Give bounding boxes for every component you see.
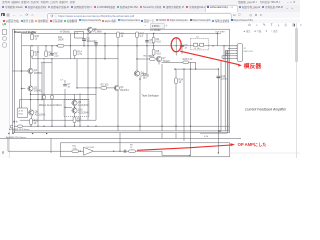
wire under C6 xyxy=(181,47,183,54)
svg-text:1n: 1n xyxy=(67,86,70,89)
svg-text:4.10: 4.10 xyxy=(156,53,161,56)
schematic sheet border outer xyxy=(13,29,230,133)
junction x218.4 output node xyxy=(218,68,219,69)
svg-text:J1 IN: J1 IN xyxy=(18,111,23,113)
svg-text:Current Feedback Amplifier: Current Feedback Amplifier xyxy=(245,107,287,111)
transistor Q3 xyxy=(114,85,129,91)
faint page edge line right xyxy=(228,152,300,154)
wire v x96 xyxy=(95,42,97,120)
junction x118 top rail xyxy=(117,33,118,34)
wire v x224 xyxy=(223,46,225,60)
svg-text:2N5551: 2N5551 xyxy=(34,72,43,75)
wire v x217 xyxy=(216,34,218,46)
junction x65 mirror xyxy=(64,107,65,108)
transistor Q4 xyxy=(134,71,149,77)
svg-text:J2: J2 xyxy=(243,48,246,50)
junction x137 bias rail xyxy=(136,45,137,46)
svg-text:2.2: 2.2 xyxy=(140,35,144,38)
svg-text:U1 5532: U1 5532 xyxy=(86,147,95,149)
junction x96 bottom rail xyxy=(95,126,96,127)
wire v x174a xyxy=(175,38,177,46)
wire v x21 input column xyxy=(21,34,23,109)
junction x32 bias rail xyxy=(31,45,32,46)
junction x153.6 top rail xyxy=(153,33,154,34)
svg-text:模反器: 模反器 xyxy=(244,62,262,70)
junction x88 y88 xyxy=(87,87,88,88)
wire v x176a xyxy=(175,69,177,78)
resistor R17 xyxy=(136,32,145,38)
wire v x155c xyxy=(153,55,155,56)
output connector J2 xyxy=(235,44,254,62)
wire v x147 xyxy=(146,34,148,46)
wire nested corner 2 xyxy=(224,50,226,131)
svg-text:1k: 1k xyxy=(130,147,133,149)
capacitor C3 xyxy=(94,43,98,44)
wire v x140 xyxy=(139,76,141,131)
junction x105 top rail xyxy=(104,33,105,34)
svg-text:Diamond Buffer: Diamond Buffer xyxy=(14,30,37,34)
svg-text:AO4M(M) 2N.0 Series: AO4M(M) 2N.0 Series xyxy=(9,128,29,131)
wire v x88 xyxy=(87,34,89,121)
wire v x74c xyxy=(74,113,76,117)
junction x44 y94 xyxy=(43,94,44,95)
svg-text:+V 36Vdc: +V 36Vdc xyxy=(150,29,161,32)
wire stub below frame x162 xyxy=(161,133,163,139)
junction x38 mid rail xyxy=(37,99,38,100)
junction x140 bottom rail xyxy=(139,126,140,127)
wire v x38 xyxy=(37,46,39,126)
wire opamp in xyxy=(8,150,72,152)
junction opamp out xyxy=(113,151,114,152)
inductor L1 xyxy=(194,43,198,46)
transistor Q9 xyxy=(72,100,89,106)
wire v x190 xyxy=(190,62,192,155)
wire +V drop xyxy=(69,34,71,46)
transistor Q8 xyxy=(29,110,46,116)
transistor Q10 xyxy=(72,108,89,114)
wire mirror base xyxy=(65,106,72,108)
junction x65 bottom rail xyxy=(64,126,65,127)
capacitor C8 xyxy=(82,37,97,43)
svg-text:RCA: RCA xyxy=(18,113,23,116)
red leader line 1 xyxy=(180,51,238,64)
svg-text:OP AMPにした: OP AMPにした xyxy=(238,141,267,148)
svg-text:5.1k: 5.1k xyxy=(204,136,209,138)
wire v x51 below frame xyxy=(50,138,52,153)
wire v x137 xyxy=(136,34,138,71)
wire mid rail left2 xyxy=(31,93,97,95)
wire v x44 xyxy=(43,61,45,120)
wire mid rail left xyxy=(20,99,90,101)
wire -V bottom rail xyxy=(15,125,230,127)
svg-text:10: 10 xyxy=(34,122,37,125)
wire v x184b xyxy=(183,69,185,141)
junction x46 bias rail xyxy=(45,45,46,46)
resistor R21 xyxy=(73,117,82,123)
wire v x218 long xyxy=(217,79,219,154)
wire R15 down xyxy=(31,56,33,59)
wire +V top rail xyxy=(22,33,221,35)
schematic sheet border inner left xyxy=(13,29,15,133)
op-amp U1 xyxy=(84,147,96,155)
capacitor C9 xyxy=(180,44,188,50)
junction x153.6 bias rail xyxy=(153,45,154,46)
junction x74.5 mid rail xyxy=(74,99,75,100)
capacitor C7 xyxy=(63,83,71,89)
wire below frame long xyxy=(0,137,241,139)
wire v x42 xyxy=(41,63,43,100)
junction x175 output node xyxy=(174,68,175,69)
wire v x70b xyxy=(69,46,71,59)
svg-text:100u/16V: 100u/16V xyxy=(86,40,97,43)
svg-text:P2.8MA: P2.8MA xyxy=(93,31,102,34)
junction x140 y79 xyxy=(139,78,140,79)
red arrowhead 2 xyxy=(230,143,235,146)
schematic sheet border inner bottom xyxy=(13,130,230,132)
junction Q9/Q10 bases xyxy=(74,107,75,108)
wire to opamp xyxy=(78,150,83,152)
wire v x77 xyxy=(76,59,78,88)
resistor R7 xyxy=(200,43,204,46)
svg-text:D44H11: D44H11 xyxy=(120,89,129,92)
wire y88 driver xyxy=(77,87,114,89)
junction x88 bias rail xyxy=(87,45,88,46)
input coupling resistor on rail xyxy=(18,125,23,128)
junction x74.5 bottom rail xyxy=(74,126,75,127)
junction x184 output node xyxy=(183,68,184,69)
junction x96 y88 xyxy=(95,87,96,88)
junction x218 y153 xyxy=(218,152,219,153)
current mirror dashed box xyxy=(64,100,89,117)
svg-text:TO220: TO220 xyxy=(162,60,170,63)
junction near frame corner xyxy=(218,130,221,131)
wire v x65a xyxy=(64,80,66,84)
wire Q1 base xyxy=(13,70,28,72)
svg-text:2200u: 2200u xyxy=(221,77,228,80)
wire v x74a xyxy=(74,94,76,100)
junction fb xyxy=(189,155,190,156)
wire stub below frame x176 xyxy=(175,133,177,139)
wire v x74b xyxy=(74,106,76,108)
transistor Q5 xyxy=(87,27,102,33)
input jack circle xyxy=(10,125,13,128)
wire C8 down xyxy=(83,40,85,46)
wire v x74d xyxy=(74,123,76,127)
svg-text:A1C(2N4): A1C(2N4) xyxy=(35,113,46,116)
wire mid stub2 xyxy=(32,58,96,60)
wire v x118b xyxy=(117,91,119,131)
wire v x176b xyxy=(175,84,177,131)
junction x176.2 bias rail xyxy=(176,45,177,46)
wire stub y63 xyxy=(41,62,52,64)
junction x21 Q1 base xyxy=(21,70,22,71)
wire v x80 xyxy=(79,93,81,126)
svg-text:SPK OUT: SPK OUT xyxy=(243,51,253,53)
wire v x30a xyxy=(30,46,32,69)
resistor R8 xyxy=(117,32,125,38)
wire nested corner 3 xyxy=(200,50,227,133)
transistor Q2 xyxy=(28,86,43,92)
resistor R4 xyxy=(152,37,161,43)
junction x32 top rail xyxy=(31,33,32,34)
junction x147 bias rail xyxy=(146,45,147,46)
wire bottom rail2 xyxy=(20,119,96,121)
wire v x162 xyxy=(161,64,163,131)
resistor R19 xyxy=(51,95,54,99)
junction x52 y58 xyxy=(51,58,52,59)
junction x96 bias rail xyxy=(95,45,96,46)
wire R14 down xyxy=(74,56,76,59)
wire fb right1 xyxy=(135,150,162,152)
resistor R14 xyxy=(73,50,82,56)
junction x105 bias rail xyxy=(104,45,105,46)
resistor R16 xyxy=(31,34,40,40)
red arrowhead 1 xyxy=(238,64,242,67)
wire v x218cap xyxy=(217,69,219,76)
svg-text:R10 4.7: R10 4.7 xyxy=(144,56,152,58)
svg-text:1k: 1k xyxy=(121,35,124,38)
svg-text:R23 0.22: R23 0.22 xyxy=(183,58,193,61)
resistor R9 xyxy=(45,51,54,57)
wire v x105 xyxy=(104,34,106,59)
svg-text:C7: C7 xyxy=(60,80,64,82)
resistor R1 xyxy=(58,37,64,47)
resistor R18 xyxy=(43,95,46,99)
junction x217 top xyxy=(217,33,218,34)
wire Q7 down xyxy=(158,62,160,65)
input connector J1 xyxy=(17,108,28,118)
wire R23 right xyxy=(189,61,196,63)
svg-text:R2 100: R2 100 xyxy=(101,84,109,87)
transistor Q7 xyxy=(156,56,170,62)
Vbe multiplier dashed box xyxy=(191,39,209,50)
svg-text:Triple Darlington: Triple Darlington xyxy=(142,95,160,98)
svg-text:10: 10 xyxy=(35,37,38,40)
junction x162 bottom rail xyxy=(161,126,162,127)
junction x176 bottom rail xyxy=(175,126,176,127)
svg-text:10: 10 xyxy=(35,54,38,57)
wire R20 down xyxy=(30,124,32,126)
junction opamp -in xyxy=(80,151,81,152)
junction x52 bottom rail xyxy=(51,126,52,127)
wire v x228 xyxy=(227,50,229,131)
resistor R5 xyxy=(152,49,161,55)
svg-text:1n: 1n xyxy=(184,46,187,49)
junction x190.5 bottom rail xyxy=(190,126,191,127)
wire fb h2 xyxy=(162,155,190,157)
red annotation ellipse xyxy=(171,38,181,52)
junction x31 bottom rail xyxy=(30,126,31,127)
feedback sub-circuit box xyxy=(61,143,230,157)
junction x88 top rail xyxy=(87,33,88,34)
wire v x30c xyxy=(30,91,32,110)
junction x105 y58 xyxy=(104,58,105,59)
junction x30 y94 xyxy=(30,94,31,95)
junction x137 y59 xyxy=(136,58,137,59)
junction C8 rail xyxy=(83,45,84,46)
wire fb v xyxy=(161,151,163,155)
red leader line 2 xyxy=(137,145,231,150)
junction x224 bias rail xyxy=(223,45,224,46)
junction x213 rail xyxy=(212,45,213,46)
svg-text:360R: 360R xyxy=(58,40,64,42)
wire to R10 xyxy=(137,58,150,60)
junction x30 y99 xyxy=(30,99,31,100)
resistor R6 xyxy=(129,145,136,153)
svg-text:10: 10 xyxy=(179,81,182,84)
svg-text:A1C(2N4): A1C(2N4) xyxy=(78,111,89,114)
svg-text:4.10: 4.10 xyxy=(156,40,161,43)
svg-text:+V 36(vd): +V 36(vd) xyxy=(60,31,70,33)
capacitor C5 xyxy=(145,39,155,45)
transistor Q1 xyxy=(28,68,43,74)
junction x77 xyxy=(76,87,77,88)
resistor R20 xyxy=(30,119,39,125)
svg-text:A-150: A-150 xyxy=(143,74,149,77)
wire Q2 base xyxy=(22,88,26,90)
capacitor C10 xyxy=(217,75,229,81)
wire v x174b xyxy=(175,46,177,56)
svg-text:4.7k: 4.7k xyxy=(77,53,82,56)
resistor R23 xyxy=(183,58,193,64)
wire v x195 up xyxy=(195,62,197,69)
wire output node xyxy=(175,68,218,70)
wires to J2 xyxy=(228,47,235,49)
junction x88 bottom rail xyxy=(87,126,88,127)
resistor R15 xyxy=(31,51,40,57)
capacitor C2 xyxy=(50,52,59,58)
junction x80 bottom rail xyxy=(79,126,80,127)
svg-text:A1C(2N4): A1C(2N4) xyxy=(78,104,89,107)
wire v x46a xyxy=(45,46,47,51)
wire v x52b xyxy=(51,59,53,126)
junction x57 bias rail xyxy=(56,45,57,46)
junction x42 mid rail xyxy=(41,99,42,100)
wire v x19 down xyxy=(19,100,21,108)
svg-text:2N5401: 2N5401 xyxy=(34,89,43,92)
svg-text:L1 10u: L1 10u xyxy=(194,48,201,50)
junction x21 Q2 base xyxy=(21,88,22,89)
capacitor C13 (series) xyxy=(124,150,126,153)
junction x44 bottom rail xyxy=(43,126,44,127)
junction x118 bottom rail xyxy=(117,126,118,127)
junction x118 bias rail xyxy=(117,45,118,46)
wire v x147b xyxy=(146,46,148,74)
svg-text:Wilson Current Mirror: Wilson Current Mirror xyxy=(39,104,62,107)
wire v x155a xyxy=(153,34,155,38)
svg-text:22u: 22u xyxy=(54,55,59,58)
wire feed into box xyxy=(119,133,121,152)
bias network box xyxy=(75,32,84,39)
wire bottom left v xyxy=(7,138,9,151)
wire v x52 xyxy=(51,46,53,53)
junction feed xyxy=(119,151,120,152)
resistor R2 xyxy=(101,84,109,90)
wire nested corner 1 xyxy=(220,60,222,131)
frame-bottom pad marks xyxy=(8,133,9,134)
wire mid stub xyxy=(96,58,118,60)
wire bias rail upper xyxy=(22,45,237,47)
wire v x30b xyxy=(30,74,32,86)
junction x195.6 output node xyxy=(195,68,196,69)
junction x52 bias rail xyxy=(51,45,52,46)
junction x38 bottom rail xyxy=(37,126,38,127)
wire v x155b xyxy=(153,43,155,50)
wire Q8 to R20 xyxy=(31,115,32,119)
resistor R3 xyxy=(72,146,78,153)
svg-text:OUT DRV: OUT DRV xyxy=(215,31,225,33)
wire opamp out xyxy=(94,150,129,152)
wire Q5 down xyxy=(89,32,91,33)
wire v x118 xyxy=(117,34,119,86)
junction x137 top rail xyxy=(136,33,137,34)
wire v x65b xyxy=(64,89,66,126)
wire Q4 base xyxy=(142,73,147,75)
junction x190.5 output node xyxy=(190,68,191,69)
wire Q7 to R23 xyxy=(162,61,184,63)
resistor R24 xyxy=(175,78,184,84)
resistor R10 xyxy=(149,55,155,61)
junction x44 y58 xyxy=(43,58,44,59)
connector pin marks xyxy=(13,121,15,123)
junction x70.4 bias rail xyxy=(70,45,71,46)
